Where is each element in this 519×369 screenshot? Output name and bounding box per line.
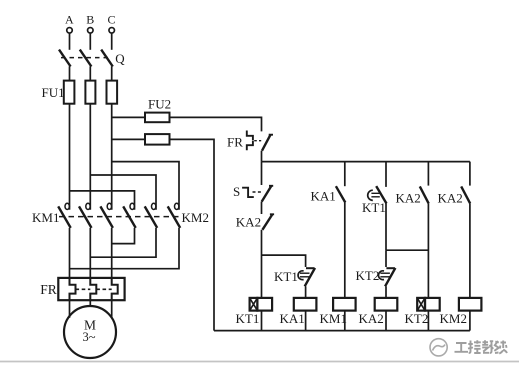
svg-text:KA1: KA1 xyxy=(311,189,336,204)
wire KM2 pole3 cross to column1 xyxy=(70,228,180,269)
wire coil KA2 down xyxy=(385,311,387,331)
wire coil KT1 down xyxy=(261,311,263,331)
coil KT1 (time relay) xyxy=(236,298,273,326)
svg-text:KM2: KM2 xyxy=(182,210,209,225)
wire branch5 upper xyxy=(427,162,429,186)
wire FR to motor left xyxy=(69,300,71,318)
wire B to FU1 xyxy=(89,66,91,80)
wire node1 tee to branch2 xyxy=(262,255,306,267)
wire phase C stub xyxy=(111,33,113,50)
wire FU2 lower to control left rail xyxy=(170,139,215,330)
node B xyxy=(86,12,94,33)
wire KM2 pole1 cross to column3 xyxy=(112,228,135,244)
svg-text:KM1: KM1 xyxy=(32,210,59,225)
contact FR control (NC) xyxy=(227,131,273,151)
coil KM2 xyxy=(440,298,482,326)
svg-text:FR: FR xyxy=(227,135,243,150)
wire FR contact to bus xyxy=(261,151,263,162)
wire FR to motor mid xyxy=(89,300,91,306)
wire KM1 pole3 down to FR xyxy=(111,228,113,278)
fuse FU1 xyxy=(42,81,118,104)
wire coil KT2 down xyxy=(427,311,429,331)
wire phase A down xyxy=(69,104,71,210)
wire branch1 upper xyxy=(261,162,263,185)
wire phase B stub xyxy=(89,33,91,50)
node A xyxy=(65,12,74,33)
wire branch4 to coil KA2 xyxy=(385,286,387,298)
wire branch5 to coil KT2 xyxy=(427,204,429,298)
wire FU2 upper to FR contact xyxy=(170,117,262,131)
svg-text:FR: FR xyxy=(40,282,57,297)
wire control bottom bus xyxy=(214,330,470,332)
wire node2 tee to branch5 xyxy=(386,249,428,251)
wire phase C down xyxy=(111,104,113,210)
watermark separator line xyxy=(0,361,519,363)
svg-text:C: C xyxy=(108,12,116,26)
coil KT2 (time relay) xyxy=(405,298,440,326)
svg-text:KT2: KT2 xyxy=(405,311,429,326)
svg-text:KT1: KT1 xyxy=(274,269,298,284)
wire tap A to KM2 pole1 xyxy=(70,191,135,210)
wire tap C to KM2 pole3 xyxy=(112,162,179,210)
wire coil KM2 down xyxy=(469,311,471,331)
contact KA2 (NO, branch5) xyxy=(396,186,429,205)
wire coil KA1 down xyxy=(305,311,307,331)
wire tap B to KM2 pole2 xyxy=(90,175,156,210)
wire KM2 pole2 cross to column2 xyxy=(90,228,156,257)
wire C to FU1 xyxy=(111,66,113,80)
svg-text:FU1: FU1 xyxy=(42,85,65,100)
contact KA1 (NO) xyxy=(311,186,346,203)
coil KA2 xyxy=(359,298,398,326)
node C xyxy=(108,12,116,33)
wire phase A stub xyxy=(69,33,71,50)
contact KT1 timed (NO, upper) xyxy=(362,186,387,215)
watermark logo xyxy=(430,339,447,356)
wire branch4 to node2 xyxy=(385,204,387,251)
wire A to FU1 xyxy=(69,66,71,80)
svg-text:KM2: KM2 xyxy=(440,311,467,326)
svg-text:KT1: KT1 xyxy=(236,311,260,326)
svg-text:FU2: FU2 xyxy=(148,96,171,111)
coil KM1 xyxy=(320,298,356,326)
fuse FU2 lower xyxy=(112,134,170,145)
svg-text:KA1: KA1 xyxy=(280,311,305,326)
svg-text:KA2: KA2 xyxy=(236,215,261,230)
wire branch4 upper xyxy=(385,162,387,187)
wire branch1 to node1 xyxy=(261,230,263,298)
thermal relay FR heaters xyxy=(40,278,124,300)
wire FR to motor right xyxy=(111,300,113,318)
svg-text:B: B xyxy=(86,12,94,26)
svg-text:KA2: KA2 xyxy=(359,311,384,326)
contactor KM2 main contacts xyxy=(123,203,209,228)
svg-text:KA2: KA2 xyxy=(438,191,463,206)
coil KA1 xyxy=(280,298,317,326)
watermark text 工控教练 xyxy=(455,340,508,353)
wire branch3 to coil KM1 xyxy=(344,203,346,299)
svg-text:A: A xyxy=(65,12,74,26)
wire control top bus xyxy=(262,161,470,163)
svg-text:3~: 3~ xyxy=(83,330,96,344)
contact KA2 (NO, branch6) xyxy=(438,186,471,205)
svg-text:S: S xyxy=(233,184,240,199)
button S (NC pushbutton) xyxy=(233,184,273,202)
svg-text:Q: Q xyxy=(115,51,125,66)
wire branch6 upper xyxy=(469,162,471,186)
contact KA2 (NC, branch1) xyxy=(236,214,274,230)
wire coil KM1 down xyxy=(344,311,346,331)
wire branch4 node2 down xyxy=(385,250,387,267)
contactor KM1 main contacts xyxy=(32,203,113,228)
svg-text:KT2: KT2 xyxy=(356,268,380,283)
svg-text:KT1: KT1 xyxy=(362,200,386,215)
fuse FU2 upper xyxy=(112,96,171,122)
wire branch2 to coil KA1 xyxy=(305,286,307,298)
contact KT1 timed (NC, lower) xyxy=(274,268,315,286)
contact KT2 timed (NC, lower) xyxy=(356,268,396,287)
motor M xyxy=(64,306,116,358)
wire phase B down xyxy=(89,104,91,210)
switch Q xyxy=(59,50,125,67)
wire branch3 upper xyxy=(344,162,346,187)
svg-text:KM1: KM1 xyxy=(320,311,347,326)
wire branch6 to coil KM2 xyxy=(469,204,471,298)
dashed linkage KM row xyxy=(59,216,179,218)
wire KM1 pole1 down to FR xyxy=(69,228,71,278)
wire KM1 pole2 down to FR xyxy=(89,228,91,278)
wire branch1 mid1 xyxy=(261,202,263,214)
svg-text:KA2: KA2 xyxy=(396,191,421,206)
